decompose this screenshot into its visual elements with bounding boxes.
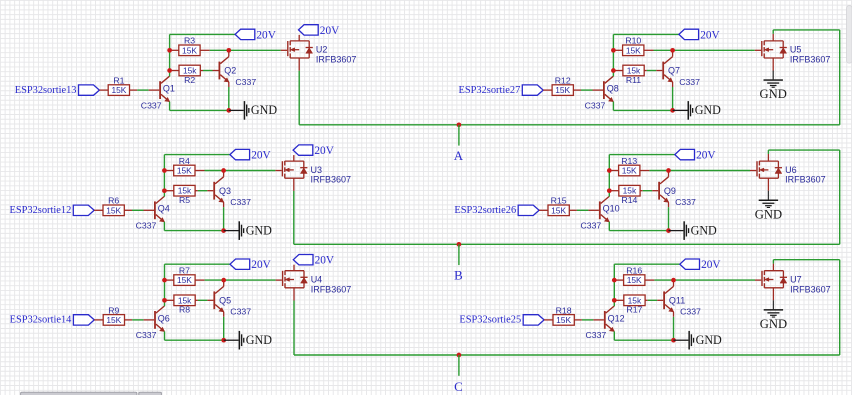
wire Q3 collector to gate node — [223, 171, 225, 177]
wire U5 source to ground — [772, 58, 774, 79]
transistor Q10 C337 — [581, 196, 620, 230]
wire Q6 emitter down — [164, 331, 166, 340]
node ground junction — [666, 228, 671, 233]
supply flag 20V drain — [293, 255, 335, 267]
svg-text:R5: R5 — [179, 195, 190, 205]
ground GND — [688, 331, 722, 350]
wire flag to R18 — [544, 319, 553, 321]
wire gate net — [205, 170, 282, 172]
resistor R9 15K — [103, 305, 124, 325]
wire Q5 emitter down — [223, 312, 225, 340]
svg-text:C337: C337 — [136, 330, 157, 340]
wire 20V rail — [164, 155, 230, 197]
wire bus B — [294, 243, 840, 245]
node rail junction R5 — [162, 188, 167, 193]
wire Q10 emitter down — [608, 222, 610, 231]
svg-text:C337: C337 — [581, 221, 602, 231]
svg-text:15K: 15K — [556, 315, 571, 325]
wire flag to R15 — [539, 209, 548, 211]
svg-text:R1: R1 — [113, 76, 124, 86]
wire U5 drain loop to bus — [773, 30, 840, 125]
node rail junction R16 — [612, 278, 617, 283]
resistor R5 15k — [164, 185, 213, 205]
wire emitter bus to ground — [613, 109, 672, 111]
svg-text:Q12: Q12 — [608, 313, 625, 323]
node ground junction — [671, 338, 676, 343]
svg-text:IRFB3607: IRFB3607 — [311, 175, 352, 185]
wire gate net — [210, 49, 287, 51]
svg-text:R2: R2 — [184, 75, 195, 85]
ground GND — [239, 221, 273, 240]
node rail junction R8 — [162, 298, 167, 303]
wire U7 source to ground — [772, 288, 774, 309]
svg-text:Q3: Q3 — [219, 186, 231, 196]
svg-text:Q9: Q9 — [664, 186, 676, 196]
resistor R1 15K — [108, 76, 129, 96]
node rail junction R17 — [612, 298, 617, 303]
wire Q4 emitter down — [163, 222, 165, 231]
transistor Q3 C337 — [213, 177, 251, 207]
wire gate net — [654, 279, 761, 281]
svg-text:GND: GND — [251, 103, 277, 117]
transistor Q1 C337 — [141, 76, 175, 110]
node rail junction R3 — [167, 48, 172, 53]
ground GND under U7 — [760, 309, 787, 331]
toolbar fragment bottom right — [139, 392, 162, 395]
svg-text:C337: C337 — [136, 221, 157, 231]
supply flag 20V — [230, 149, 272, 161]
input flag ESP32sortie14 — [73, 315, 94, 325]
wire emitter bus to ground — [164, 230, 223, 232]
svg-text:IRFB3607: IRFB3607 — [790, 284, 831, 294]
wire Q1 emitter down — [169, 102, 171, 111]
resistor R6 15K — [103, 196, 124, 216]
svg-text:15K: 15K — [627, 275, 642, 285]
svg-text:R16: R16 — [626, 266, 642, 276]
resistor R14 15k — [609, 185, 658, 205]
wire U7 drain loop to bus — [773, 260, 839, 355]
svg-text:C337: C337 — [230, 307, 251, 317]
svg-text:Q6: Q6 — [158, 313, 170, 323]
mosfet U7 IRFB3607 — [761, 271, 830, 295]
svg-text:20V: 20V — [256, 29, 276, 41]
transistor Q12 C337 — [586, 306, 625, 340]
supply flag 20V — [235, 29, 277, 41]
node ground junction — [670, 108, 675, 113]
svg-text:GND: GND — [246, 223, 272, 237]
svg-text:R8: R8 — [179, 305, 190, 315]
svg-text:R3: R3 — [184, 36, 195, 46]
svg-text:20V: 20V — [251, 150, 271, 162]
svg-text:U3: U3 — [311, 165, 323, 175]
svg-text:GND: GND — [760, 87, 787, 101]
svg-text:B: B — [454, 268, 463, 282]
wire 20V rail — [165, 264, 231, 306]
node rail junction R13 — [607, 168, 612, 173]
resistor R12 15K — [552, 76, 573, 96]
svg-text:Q8: Q8 — [607, 84, 619, 94]
svg-text:C337: C337 — [235, 77, 256, 87]
wire Q3 emitter down — [223, 202, 225, 230]
wire emitter bus to ground — [170, 109, 229, 111]
supply flag 20V — [679, 29, 721, 41]
node ground junction — [221, 338, 226, 343]
wire to ground symbol — [224, 230, 239, 232]
wire 20V rail — [613, 34, 679, 76]
wire gate net — [205, 279, 282, 281]
wire emitter bus to ground — [165, 339, 224, 341]
svg-text:U5: U5 — [790, 45, 802, 55]
ground GND — [688, 101, 722, 120]
wire U3 source down to bus — [293, 178, 295, 244]
svg-text:GND: GND — [691, 223, 717, 237]
svg-text:C337: C337 — [675, 197, 696, 207]
svg-text:15K: 15K — [555, 85, 570, 95]
wire Q2 collector to gate node — [228, 50, 230, 56]
transistor Q5 C337 — [213, 286, 251, 316]
node B junction — [457, 242, 462, 247]
mosfet U3 IRFB3607 — [282, 161, 351, 185]
node C junction — [457, 353, 462, 358]
node rail junction R11 — [611, 68, 616, 73]
wire to ground symbol — [674, 339, 689, 341]
wire to ground symbol — [669, 230, 684, 232]
svg-text:R15: R15 — [551, 196, 567, 206]
svg-text:U6: U6 — [785, 165, 797, 175]
svg-text:15K: 15K — [177, 275, 192, 285]
node A junction — [457, 122, 462, 127]
svg-text:R17: R17 — [626, 305, 642, 315]
resistor R13 15K — [609, 156, 649, 176]
svg-text:ESP32sortie14: ESP32sortie14 — [10, 315, 73, 326]
svg-text:C337: C337 — [680, 307, 701, 317]
supply flag 20V drain — [293, 145, 335, 157]
node rail junction R14 — [607, 188, 612, 193]
resistor R4 15K — [164, 156, 204, 176]
node rail junction R7 — [162, 278, 167, 283]
wire U6 source to ground — [767, 178, 769, 199]
wire Q2 emitter down — [228, 82, 230, 110]
ground GND — [239, 331, 273, 350]
node rail junction R2 — [167, 68, 172, 73]
wire emitter bus to ground — [609, 230, 668, 232]
wire 20V rail — [170, 34, 236, 76]
input flag ESP32sortie13 — [79, 85, 100, 95]
input flag ESP32sortie12 — [73, 205, 94, 215]
svg-text:Q4: Q4 — [158, 204, 170, 214]
input flag ESP32sortie26 — [518, 205, 539, 215]
supply flag 20V — [680, 259, 722, 271]
ground GND under U6 — [755, 200, 782, 222]
svg-text:20V: 20V — [320, 25, 340, 37]
svg-text:Q7: Q7 — [668, 66, 680, 76]
wire Q9 collector to gate node — [668, 171, 670, 177]
svg-text:20V: 20V — [251, 259, 271, 271]
wire Q7 emitter down — [672, 82, 674, 110]
svg-text:20V: 20V — [700, 29, 720, 41]
svg-text:C337: C337 — [141, 100, 162, 110]
resistor R3 15K — [170, 36, 210, 56]
transistor Q4 C337 — [136, 196, 170, 230]
wire to ground symbol — [229, 109, 244, 111]
resistor R8 15k — [165, 295, 214, 315]
wire 20V rail — [609, 155, 675, 197]
svg-text:GND: GND — [696, 333, 722, 347]
wire stub to label A — [458, 125, 460, 146]
node gate junction — [226, 48, 231, 53]
svg-text:20V: 20V — [315, 255, 335, 267]
node rail junction R10 — [611, 48, 616, 53]
mosfet U6 IRFB3607 — [756, 161, 825, 185]
wire bus A — [299, 124, 840, 126]
transistor Q2 C337 — [219, 57, 257, 87]
node gate junction — [221, 278, 226, 283]
supply flag 20V — [675, 149, 717, 161]
wire flag to R12 — [543, 89, 552, 91]
resistor R15 15K — [548, 196, 569, 216]
wire Q9 emitter down — [668, 202, 670, 230]
svg-text:A: A — [454, 149, 464, 163]
wire Q5 collector to gate node — [223, 280, 225, 286]
svg-text:15K: 15K — [622, 166, 637, 176]
svg-text:IRFB3607: IRFB3607 — [785, 175, 826, 185]
svg-text:U2: U2 — [316, 45, 328, 55]
svg-text:Q10: Q10 — [603, 204, 620, 214]
wire Q11 emitter down — [673, 312, 675, 340]
svg-text:GND: GND — [760, 317, 787, 331]
svg-text:Q11: Q11 — [669, 296, 685, 306]
ground GND — [683, 221, 717, 240]
svg-text:R18: R18 — [556, 305, 572, 315]
svg-text:ESP32sortie12: ESP32sortie12 — [10, 205, 72, 216]
svg-text:R4: R4 — [179, 156, 190, 166]
wire 20V rail — [614, 264, 680, 306]
wire stub to label B — [458, 244, 460, 265]
wire gate net — [649, 170, 756, 172]
transistor Q8 C337 — [585, 76, 619, 110]
svg-text:15K: 15K — [551, 205, 566, 215]
svg-text:R13: R13 — [621, 156, 637, 166]
svg-text:15K: 15K — [182, 45, 197, 55]
wire R12 to Q8 base — [573, 89, 603, 91]
svg-text:R7: R7 — [179, 266, 190, 276]
node ground junction — [221, 228, 226, 233]
wire U6 drain loop to bus — [768, 150, 839, 244]
resistor R16 15K — [614, 266, 654, 286]
svg-text:15K: 15K — [111, 85, 126, 95]
svg-text:20V: 20V — [696, 150, 716, 162]
wire drain to 20V flag — [293, 155, 295, 161]
node gate junction — [671, 278, 676, 283]
svg-text:R11: R11 — [626, 75, 641, 85]
svg-text:15K: 15K — [177, 166, 192, 176]
wire Q11 collector to gate node — [673, 280, 675, 286]
svg-text:R6: R6 — [108, 196, 119, 206]
wire flag to R1 — [99, 89, 108, 91]
input flag ESP32sortie25 — [523, 315, 544, 325]
svg-text:U7: U7 — [790, 275, 802, 285]
wire flag to R6 — [94, 209, 103, 211]
scrollbar fragment right — [847, 6, 852, 64]
svg-text:R14: R14 — [621, 195, 637, 205]
wire gate net — [654, 49, 762, 51]
node gate junction — [670, 48, 675, 53]
svg-text:Q2: Q2 — [224, 66, 236, 76]
mosfet U4 IRFB3607 — [282, 271, 351, 295]
svg-text:ESP32sortie27: ESP32sortie27 — [459, 85, 521, 96]
transistor Q11 C337 — [663, 286, 701, 316]
svg-text:C337: C337 — [586, 330, 607, 340]
svg-text:IRFB3607: IRFB3607 — [316, 55, 357, 65]
svg-text:IRFB3607: IRFB3607 — [311, 284, 352, 294]
wire flag to R9 — [94, 319, 103, 321]
node gate junction — [666, 168, 671, 173]
toolbar fragment bottom left — [21, 392, 137, 395]
svg-text:Q5: Q5 — [219, 296, 231, 306]
resistor R11 15k — [613, 65, 662, 85]
wire drain to 20V flag — [298, 35, 300, 41]
wire R1 to Q1 base — [130, 89, 160, 91]
svg-text:GND: GND — [755, 207, 782, 221]
supply flag 20V — [230, 259, 272, 271]
svg-text:ESP32sortie25: ESP32sortie25 — [459, 315, 521, 326]
ground GND — [244, 101, 278, 120]
svg-text:R12: R12 — [555, 76, 571, 86]
wire R18 to Q12 base — [574, 319, 604, 321]
transistor Q6 C337 — [136, 306, 170, 340]
svg-text:Q1: Q1 — [163, 84, 175, 94]
wire Q7 collector to gate node — [672, 50, 674, 56]
resistor R2 15k — [170, 65, 219, 85]
resistor R10 15K — [613, 36, 653, 56]
supply flag 20V drain — [299, 25, 341, 37]
svg-text:IRFB3607: IRFB3607 — [790, 55, 831, 65]
svg-text:U4: U4 — [311, 275, 323, 285]
wire to ground symbol — [673, 109, 688, 111]
svg-text:C337: C337 — [585, 100, 606, 110]
svg-text:C: C — [454, 380, 463, 394]
wire bus C — [294, 354, 840, 356]
resistor R7 15K — [165, 266, 205, 286]
svg-text:C337: C337 — [679, 77, 700, 87]
wire R9 to Q6 base — [125, 319, 155, 321]
svg-text:ESP32sortie26: ESP32sortie26 — [454, 205, 516, 216]
wire R15 to Q10 base — [569, 209, 599, 211]
wire drain to 20V flag — [293, 265, 295, 271]
svg-text:20V: 20V — [701, 259, 721, 271]
wire U4 source down to bus — [293, 288, 295, 355]
svg-text:R9: R9 — [108, 305, 119, 315]
input flag ESP32sortie27 — [522, 85, 543, 95]
node gate junction — [221, 168, 226, 173]
transistor Q7 C337 — [662, 57, 700, 87]
wire U2 source down to bus — [298, 58, 300, 125]
svg-text:15K: 15K — [626, 45, 641, 55]
mosfet U5 IRFB3607 — [761, 41, 830, 65]
ground GND under U5 — [760, 79, 787, 101]
svg-text:ESP32sortie13: ESP32sortie13 — [15, 85, 77, 96]
svg-text:GND: GND — [695, 103, 721, 117]
svg-text:R10: R10 — [625, 36, 641, 46]
svg-text:15K: 15K — [106, 205, 121, 215]
node rail junction R4 — [162, 168, 167, 173]
svg-text:C337: C337 — [230, 197, 251, 207]
wire emitter bus to ground — [614, 339, 673, 341]
svg-text:GND: GND — [246, 333, 272, 347]
transistor Q9 C337 — [658, 177, 696, 207]
svg-text:20V: 20V — [314, 145, 334, 157]
wire R6 to Q4 base — [124, 209, 154, 211]
node ground junction — [226, 108, 231, 113]
wire to ground symbol — [224, 339, 239, 341]
wire Q12 emitter down — [613, 331, 615, 340]
wire stub to label C — [458, 355, 460, 376]
svg-text:15K: 15K — [106, 315, 121, 325]
resistor R18 15K — [553, 305, 574, 325]
wire Q8 emitter down — [612, 102, 614, 111]
resistor R17 15k — [614, 295, 663, 315]
mosfet U2 IRFB3607 — [287, 41, 356, 65]
